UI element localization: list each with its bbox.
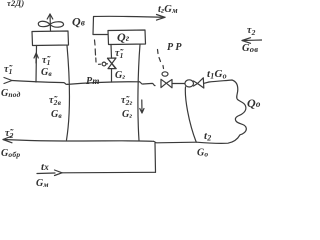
air heater rectangle [32,31,69,46]
label Qо [247,96,261,110]
supply main line with arrow [4,78,12,84]
svg-text:τ̃1: τ̃1 [4,64,13,76]
svg-text:РР: РР [167,42,182,53]
label QB [72,15,85,29]
svg-text:Gг: Gг [122,109,132,120]
svg-text:t2: t2 [204,130,211,143]
svg-text:Gобр: Gобр [1,148,20,159]
PP actuator circle [162,72,168,76]
makeup riser [154,143,157,172]
svg-text:Gв: Gв [41,67,52,78]
svg-text:Рт: Рт [86,76,100,87]
svg-text:t1Gо: t1Gо [207,68,227,81]
ejector mixing leg from return [185,87,196,142]
svg-text:Qв: Qв [72,15,85,29]
label Gг at valve [115,70,125,81]
svg-text:τ2Д): τ2Д) [7,0,24,8]
svg-text:τ̃2: τ̃2 [5,128,14,140]
svg-text:τ2: τ2 [247,25,256,37]
label PT [86,76,100,87]
control valve hourglass on gas inlet [108,58,117,69]
label Gов [242,43,258,54]
label Qг [117,30,130,44]
down arrow on Qг outlet leg [140,100,144,113]
gas inlet pipe [110,45,113,83]
blob bottom labels t2 Gо [197,130,211,159]
label tau1 supply [4,64,13,76]
svg-text:Gв: Gв [51,109,62,120]
top-right labels tau2 Gов [247,25,256,37]
svg-text:Gм: Gм [36,178,49,189]
output stub and arrow tгGм [93,16,165,34]
svg-text:τ̃1: τ̃1 [42,55,51,67]
svg-text:tгGм: tгGм [158,4,178,15]
label tгGм [158,4,178,15]
gas water heater rectangle Qг [108,30,146,45]
wire heater left leg [35,46,38,83]
svg-text:τ̃2г: τ̃2г [121,95,133,107]
label Gpod [1,88,21,99]
top-right left arrow [242,38,262,44]
svg-text:tх: tх [41,161,49,173]
label tau2 return [5,128,14,140]
labels tau2г Gг [121,95,133,120]
Qг outlet leg [138,45,140,141]
svg-text:Gов: Gов [242,43,258,54]
PP dashed line [158,50,164,69]
svg-text:Gпод: Gпод [1,88,21,99]
svg-text:τ̃2в: τ̃2в [49,95,62,107]
PT dashed sensor line [95,40,97,62]
ejector (elevator) [185,80,194,87]
label tau2v Gv [49,95,62,120]
label Gм [36,178,49,189]
label tх [41,161,49,173]
PP control valve on supply line [161,79,166,87]
svg-text:Gг: Gг [115,70,125,81]
svg-text:τ̃1: τ̃1 [115,48,124,60]
arrow up on heater left leg [34,53,38,63]
return main line with left arrow [3,136,12,143]
building load blob Qо [204,82,209,83]
label Gобр [1,148,20,159]
label t1Go [207,68,227,81]
partial text top-left [7,0,24,8]
fan symbol above air heater [38,14,63,31]
actuator circle and stem [106,63,108,65]
svg-text:Qг: Qг [117,30,130,44]
label tau1 Gv [41,55,52,78]
label tau1 at valve [115,48,124,60]
svg-text:Gо: Gо [197,148,208,159]
svg-text:Qо: Qо [247,96,261,110]
label PP [167,42,182,53]
wire heater right leg [67,46,70,141]
makeup water line tх Gм [37,172,55,175]
